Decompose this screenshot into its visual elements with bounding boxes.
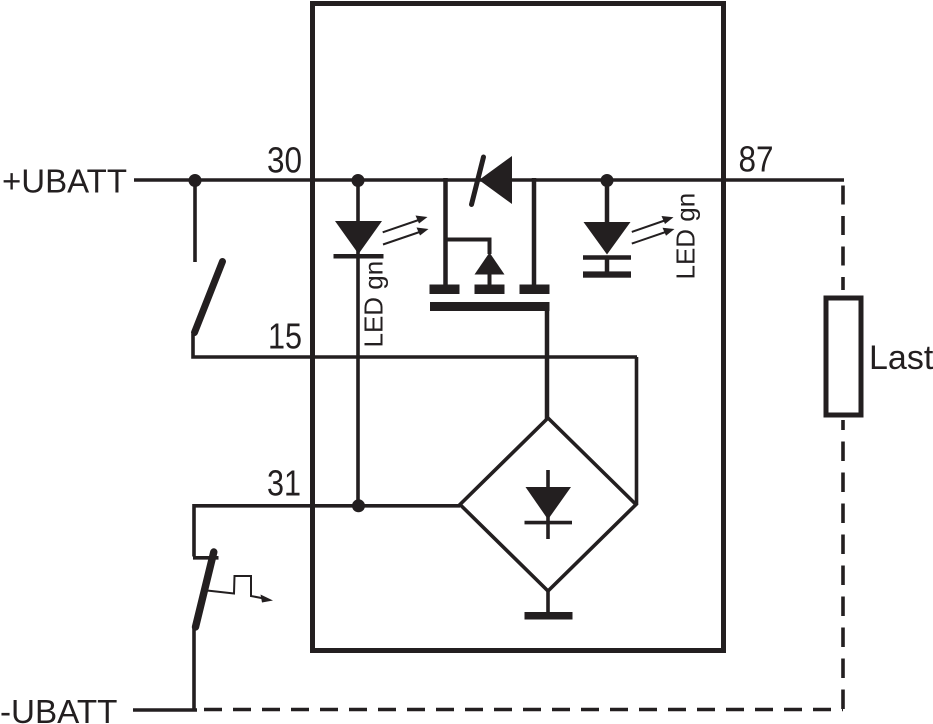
switch S1 blade (ignition switch) [195,262,223,333]
zener diode Z1 triangle [475,253,505,275]
transistor T1 pad 2 [475,285,505,295]
transistor T1 gate link horizontal [444,238,490,242]
wire 30-87 (+UBATT rail) [134,178,844,182]
transistor T1 pad 1 [430,285,460,295]
bridge rectifier diamond [460,418,636,591]
LED1 cathode bar [334,254,384,259]
switch S2 blade (pulsed switch) [196,552,214,627]
diode D1 (free-wheeling, slashed cathode) triangle [479,156,512,204]
transistor T1 right leg [532,178,537,287]
wire from S1 blade to terminal 15 [193,334,637,357]
wire -UBATT dashed segment to load [204,708,843,712]
node junction dot at +UBATT switch tap [189,174,202,187]
LED1 light arrow 1 [383,219,423,233]
wire from +UBATT dot down to switch S1 [193,180,197,262]
bridge inner diode triangle [526,487,572,520]
LED2 terminal plate [583,271,631,277]
svg-text:LED gn: LED gn [359,261,389,348]
LED2 triangle [584,222,631,255]
dashed wire 87 down to load [841,186,845,291]
LED2 cathode bar [583,255,631,260]
wire T1 drain down to bridge top vertex [545,311,550,419]
svg-text:30: 30 [267,140,302,181]
node junction dot LED1 cathode on wire 31 [352,499,365,512]
square-wave trigger symbol with arrow [207,576,264,599]
LED2 light arrow 1 [632,219,669,232]
transistor T1 pad 3 [520,285,550,295]
node junction dot at LED2 tap [601,174,614,187]
relay box outline [313,4,724,651]
LED1 triangle [335,221,382,254]
bridge inner diode wire [546,470,550,539]
bridge ground stub [546,591,550,613]
dashed wire load down to -UBATT rail [841,420,845,709]
LED2 (right, LED gn) anode wire [605,180,610,224]
LED1 (left, LED gn) anode wire [356,180,360,505]
ground plate [525,612,573,620]
LED1 light arrow 2 [383,231,424,245]
wire 15 drop to bridge right vertex [635,357,639,504]
svg-text:15: 15 [268,316,302,357]
transistor T1 left leg (gate feed) [443,178,448,287]
svg-text:+UBATT: +UBATT [2,162,127,199]
node junction dot at LED1 tap [352,174,365,187]
svg-text:87: 87 [739,139,774,180]
transistor T1 gate link vertical stub [488,238,492,255]
zener diode Z1 stub to pad [488,275,492,288]
svg-text:-UBATT: -UBATT [0,694,117,724]
svg-text:Last: Last [869,339,933,377]
svg-text:31: 31 [267,463,301,504]
wire 31 from bottom switch to bridge left vertex [194,506,460,557]
wire from S2 blade down to -UBATT rail [192,626,196,710]
switch S2 fixed contact tick [193,556,219,560]
transistor T1 substrate bar [430,302,550,311]
LED2 stub [605,258,610,273]
diode D1 slanted cathode bar [472,157,484,205]
svg-text:LED gn: LED gn [671,193,701,280]
load resistor Last [826,298,861,415]
bridge inner diode cathode bar [525,521,573,525]
wire -UBATT solid segment [133,708,197,712]
LED2 light arrow 2 [632,231,670,244]
